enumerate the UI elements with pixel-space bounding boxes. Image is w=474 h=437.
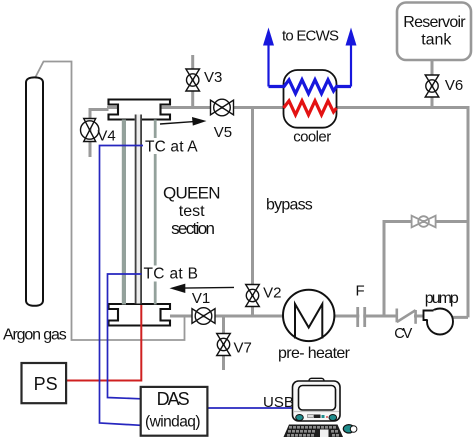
svg-text:V4: V4 bbox=[97, 128, 115, 145]
svg-text:bypass: bypass bbox=[266, 197, 313, 214]
svg-text:cooler: cooler bbox=[293, 128, 331, 145]
svg-text:V2: V2 bbox=[263, 285, 281, 302]
svg-text:section: section bbox=[171, 219, 215, 238]
svg-text:V5: V5 bbox=[214, 124, 232, 141]
svg-text:DAS: DAS bbox=[157, 389, 190, 409]
svg-text:V1: V1 bbox=[192, 290, 210, 307]
svg-text:pre- heater: pre- heater bbox=[278, 345, 351, 362]
svg-text:TC at B: TC at B bbox=[144, 266, 199, 283]
svg-text:CV: CV bbox=[394, 326, 412, 342]
svg-text:test: test bbox=[179, 203, 205, 220]
svg-text:PS: PS bbox=[34, 374, 58, 394]
svg-text:pump: pump bbox=[425, 290, 459, 307]
svg-text:Argon gas: Argon gas bbox=[3, 326, 67, 343]
svg-text:V3: V3 bbox=[204, 69, 222, 86]
svg-text:(windaq): (windaq) bbox=[145, 414, 201, 431]
svg-text:to ECWS: to ECWS bbox=[282, 28, 339, 45]
svg-text:Reservoir: Reservoir bbox=[403, 14, 466, 31]
svg-text:tank: tank bbox=[421, 32, 452, 49]
svg-text:USB: USB bbox=[263, 394, 294, 411]
svg-text:V7: V7 bbox=[234, 340, 252, 357]
svg-text:F: F bbox=[356, 283, 365, 300]
svg-text:V6: V6 bbox=[445, 77, 463, 94]
svg-text:TC at A: TC at A bbox=[145, 139, 198, 156]
svg-text:QUEEN: QUEEN bbox=[163, 183, 221, 202]
